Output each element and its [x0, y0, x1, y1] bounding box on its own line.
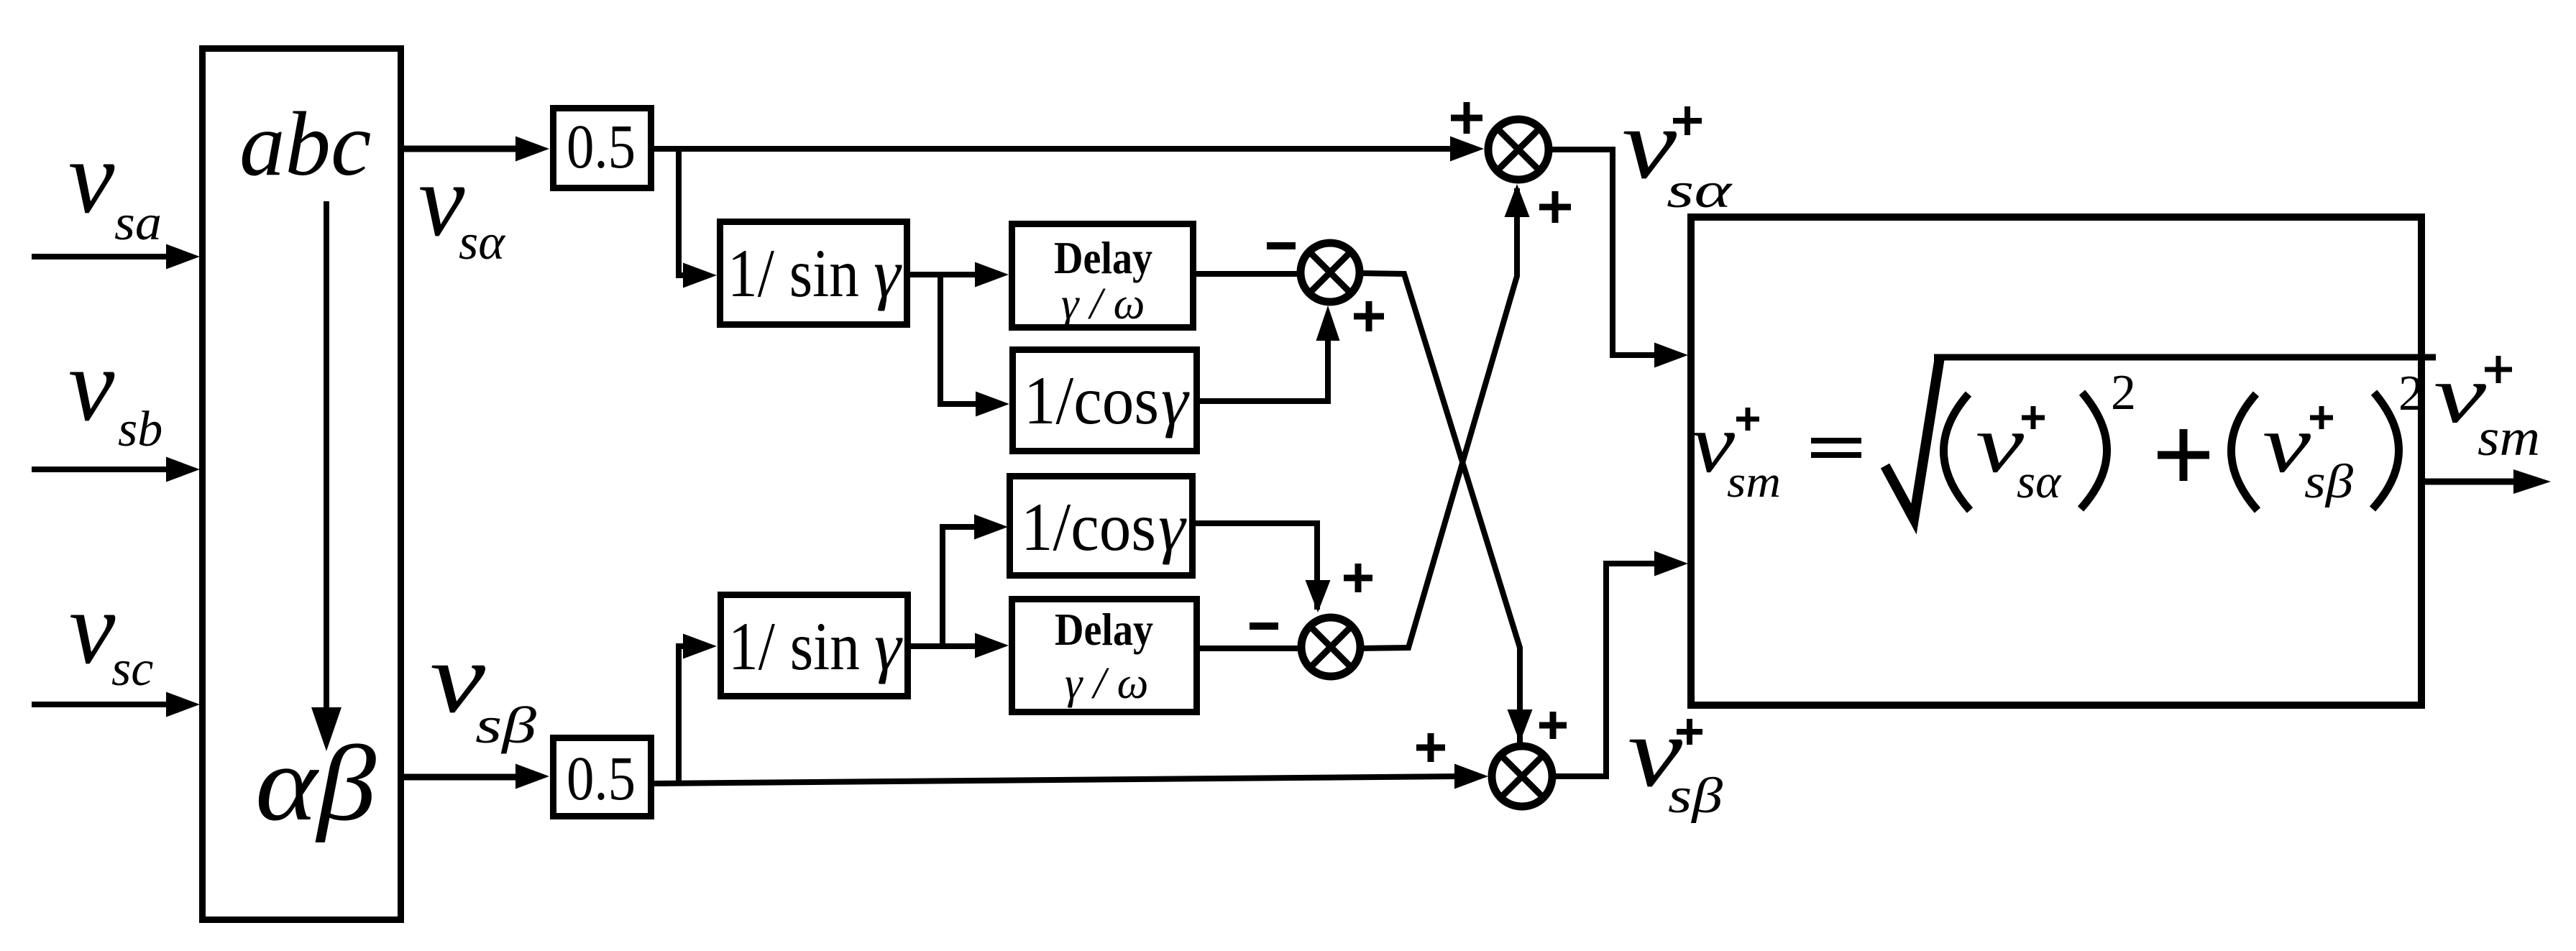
svg-text:sβ: sβ — [475, 697, 536, 754]
svg-text:γ: γ — [874, 608, 903, 684]
svg-text:v: v — [69, 571, 116, 686]
svg-text:sα: sα — [2017, 455, 2062, 508]
svg-text:sc: sc — [111, 641, 153, 697]
svg-text:v: v — [68, 328, 115, 443]
svg-text:αβ: αβ — [255, 724, 376, 843]
svg-text:sα: sα — [1667, 163, 1733, 219]
svg-text:1/cos: 1/cos — [1021, 489, 1156, 565]
svg-text:abc: abc — [239, 94, 371, 195]
svg-text:1/ sin: 1/ sin — [728, 608, 860, 684]
svg-text:0.5: 0.5 — [567, 743, 636, 813]
svg-text:2: 2 — [2111, 365, 2136, 421]
svg-text:γ: γ — [874, 235, 902, 311]
svg-text:γ / ω: γ / ω — [1061, 280, 1145, 329]
svg-text:0.5: 0.5 — [567, 111, 636, 181]
svg-text:v: v — [68, 120, 115, 235]
svg-text:γ / ω: γ / ω — [1065, 659, 1148, 708]
svg-text:sβ: sβ — [1668, 768, 1723, 824]
svg-text:1/cos: 1/cos — [1024, 362, 1159, 438]
svg-text:sm: sm — [1727, 458, 1781, 507]
svg-text:Delay: Delay — [1054, 232, 1152, 283]
svg-text:2: 2 — [2398, 366, 2424, 421]
svg-text:sα: sα — [459, 215, 505, 270]
svg-text:sm: sm — [2478, 408, 2540, 467]
svg-text:γ: γ — [1161, 362, 1190, 438]
svg-text:Delay: Delay — [1055, 604, 1153, 655]
svg-text:1/ sin: 1/ sin — [728, 235, 859, 311]
svg-text:sb: sb — [118, 402, 162, 457]
svg-text:sβ: sβ — [2304, 455, 2354, 508]
svg-text:γ: γ — [1158, 489, 1187, 565]
svg-text:sa: sa — [114, 196, 162, 251]
